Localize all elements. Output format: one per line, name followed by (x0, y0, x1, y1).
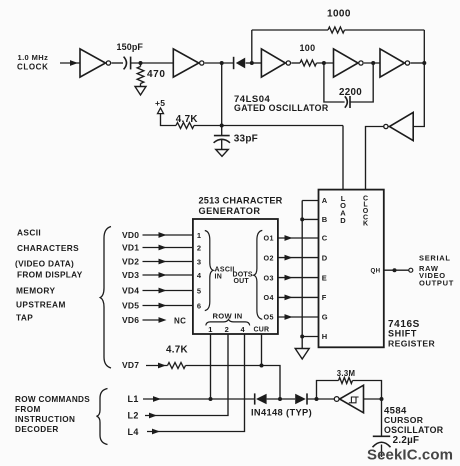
svg-text:CURSOR: CURSOR (384, 415, 424, 425)
svg-text:4.7K: 4.7K (166, 344, 188, 355)
node bus H junction (300, 335, 304, 339)
svg-text:O3: O3 (264, 273, 274, 282)
svg-text:NC: NC (174, 316, 186, 325)
node C junction (322, 61, 326, 65)
inverter U1C (261, 49, 285, 77)
svg-text:GATED OSCILLATOR: GATED OSCILLATOR (234, 103, 329, 113)
node L1/pin1 junction (209, 397, 213, 401)
svg-text:1.0 MHz: 1.0 MHz (18, 53, 49, 62)
svg-text:3.3M: 3.3M (337, 369, 356, 378)
node B junction (250, 61, 254, 65)
svg-text:2200: 2200 (339, 87, 362, 98)
svg-text:1000: 1000 (327, 9, 351, 20)
node E junction (422, 61, 426, 65)
wire U1E out (410, 62, 424, 64)
wires O1-O5 to shift register (278, 237, 319, 239)
svg-text:IN: IN (215, 274, 223, 281)
svg-text:2: 2 (225, 325, 229, 334)
svg-text:33pF: 33pF (234, 133, 258, 144)
svg-text:O5: O5 (264, 313, 274, 322)
svg-text:F: F (322, 293, 327, 302)
svg-text:D: D (340, 216, 346, 225)
svg-text:CLOCK: CLOCK (17, 62, 48, 71)
svg-text:MEMORY: MEMORY (16, 285, 55, 295)
node G junction (315, 397, 319, 401)
wire node E to U1F (413, 63, 424, 127)
svg-text:OSCILLATOR: OSCILLATOR (384, 425, 444, 435)
capacitor C1 150pF (124, 57, 127, 70)
resistor R 470 (137, 67, 144, 84)
wire CUR to diode node (262, 366, 281, 400)
brace ASCII IN (205, 231, 213, 311)
svg-text:100: 100 (300, 43, 316, 53)
capacitor C2 2200 bracket (324, 63, 345, 102)
svg-text:1: 1 (197, 231, 201, 240)
wire VD4 input (143, 290, 193, 292)
svg-text:1: 1 (208, 325, 212, 334)
svg-text:ROW IN: ROW IN (213, 311, 243, 320)
svg-text:470: 470 (147, 69, 166, 80)
svg-text:SeekIC.com: SeekIC.com (367, 446, 453, 463)
svg-text:VD7: VD7 (122, 360, 139, 370)
wire VD6 to NC (143, 319, 160, 321)
wire U1A out (111, 62, 123, 64)
svg-text:G: G (322, 313, 328, 322)
svg-text:FROM: FROM (15, 405, 41, 414)
node A junction (220, 61, 224, 65)
svg-text:2.2µF: 2.2µF (393, 435, 420, 446)
wire U1C out (291, 62, 300, 64)
svg-text:FROM DISPLAY: FROM DISPLAY (17, 270, 83, 280)
node junction 33pF (220, 124, 224, 128)
svg-text:SERIAL: SERIAL (419, 253, 451, 262)
wire pin1 down to L1 (210, 334, 212, 399)
svg-text:5: 5 (197, 286, 201, 295)
inverter U1A (80, 49, 106, 77)
diode D2 1N4148 (254, 393, 256, 404)
diode D1 (233, 57, 235, 69)
wire VD5 input (143, 305, 193, 307)
ground bus (295, 349, 309, 360)
svg-text:VD3: VD3 (122, 270, 139, 280)
svg-text:L1: L1 (128, 394, 139, 404)
node bus B junction (300, 217, 304, 221)
svg-text:CHARACTERS: CHARACTERS (17, 243, 79, 253)
svg-text:D: D (322, 253, 328, 262)
wire pin4 down to L4 (147, 334, 245, 432)
svg-text:QH: QH (371, 267, 381, 274)
wire VD7 (146, 365, 168, 367)
diode D3 1N4148 (295, 394, 306, 405)
svg-text:SHIFT: SHIFT (388, 329, 417, 339)
wire node H down (381, 399, 383, 436)
wire 4.7K to CUR node (186, 365, 262, 367)
wire L4 arrow (152, 429, 160, 435)
wire VD3 input (143, 274, 193, 276)
capacitor C4 2.2uF (373, 435, 390, 437)
node junction C1/R470 (139, 61, 143, 65)
svg-text:ASCII: ASCII (17, 227, 41, 237)
svg-text:K: K (363, 221, 368, 228)
wire to LOAD (194, 125, 343, 127)
resistor R 4.7K bottom (168, 363, 186, 369)
wire VD2 input (143, 261, 193, 263)
svg-text:C: C (322, 234, 328, 243)
wire VD0 input (143, 234, 193, 236)
wire bus H (302, 336, 318, 338)
resistor R 1000 feedback (252, 29, 328, 31)
svg-text:2: 2 (197, 243, 201, 252)
svg-text:O1: O1 (264, 234, 274, 243)
svg-text:REGISTER: REGISTER (388, 338, 436, 348)
svg-text:L2: L2 (128, 411, 139, 421)
svg-text:O2: O2 (264, 253, 274, 262)
svg-text:E: E (322, 273, 327, 282)
svg-text:A: A (322, 196, 328, 205)
svg-text:GENERATOR: GENERATOR (199, 206, 261, 216)
svg-text:6: 6 (197, 301, 201, 310)
capacitor C3 33pF (221, 126, 223, 136)
svg-text:UPSTREAM: UPSTREAM (16, 299, 66, 309)
svg-text:DECODER: DECODER (15, 425, 59, 434)
svg-text:IN4148 (TYP): IN4148 (TYP) (251, 408, 312, 418)
node H junction (380, 397, 384, 401)
wire ground bus (301, 201, 303, 349)
svg-text:O4: O4 (264, 293, 274, 302)
svg-text:OUT: OUT (234, 278, 250, 285)
svg-text:(VIDEO DATA): (VIDEO DATA) (15, 258, 74, 268)
node F junction (278, 397, 282, 401)
brace DOTS OUT (254, 230, 263, 319)
wire node A down (221, 63, 223, 126)
brace ascii characters (100, 227, 111, 369)
wire C1 to node (131, 62, 174, 64)
inverter U1E (380, 49, 405, 77)
node D junction (371, 61, 375, 65)
inverter U3 schmitt (334, 397, 339, 402)
svg-text:2513 CHARACTER: 2513 CHARACTER (199, 196, 283, 206)
inverter U1D (334, 49, 359, 77)
IC U4 74165 box (319, 190, 384, 348)
inverter U1F (389, 112, 413, 140)
wire clock input (60, 62, 80, 64)
wire U1B out to diode (205, 62, 234, 64)
ground below 33pF (216, 150, 229, 157)
svg-text:150pF: 150pF (117, 42, 144, 52)
ground below R470 (135, 87, 146, 96)
wire bus A (302, 200, 318, 202)
wire L1 (143, 398, 255, 400)
svg-text:VD0: VD0 (122, 230, 139, 240)
resistor R 100 (300, 60, 317, 66)
IC U2 2513 box (193, 219, 278, 334)
svg-text:VD4: VD4 (122, 286, 139, 296)
svg-text:+5: +5 (155, 98, 165, 108)
wire VD1 input (143, 247, 193, 249)
svg-text:TAP: TAP (16, 313, 33, 323)
svg-text:ROW COMMANDS: ROW COMMANDS (15, 395, 90, 404)
wire CUR pin down (261, 334, 263, 366)
svg-text:CUR: CUR (254, 327, 270, 334)
svg-text:3: 3 (197, 257, 201, 266)
resistor R 4.7K top (176, 123, 194, 129)
wire L2 arrow (149, 413, 157, 419)
svg-text:VD1: VD1 (122, 243, 139, 253)
svg-text:INSTRUCTION: INSTRUCTION (15, 415, 75, 424)
svg-text:VD6: VD6 (122, 315, 139, 325)
brace ROW IN (206, 319, 250, 325)
inverter U1B (173, 49, 199, 77)
svg-text:4.7K: 4.7K (176, 114, 198, 125)
resistor R 3.3M feedback (317, 381, 339, 400)
brace row commands (97, 389, 108, 445)
wire pin2 down to L2 (145, 334, 228, 416)
wire feedback left riser (251, 30, 253, 63)
svg-text:VD5: VD5 (122, 301, 139, 311)
svg-text:B: B (322, 215, 328, 224)
node CUR junction (260, 364, 264, 368)
svg-text:L4: L4 (128, 427, 139, 437)
wire schmitt in (364, 398, 382, 400)
svg-text:VD2: VD2 (122, 257, 139, 267)
svg-text:H: H (322, 332, 327, 341)
wire U1F out to CLOCK pin (366, 127, 384, 190)
wire U1D out (364, 62, 380, 64)
wire bus B (302, 218, 318, 220)
svg-text:OUTPUT: OUTPUT (419, 279, 454, 288)
wire QH output (384, 269, 409, 271)
